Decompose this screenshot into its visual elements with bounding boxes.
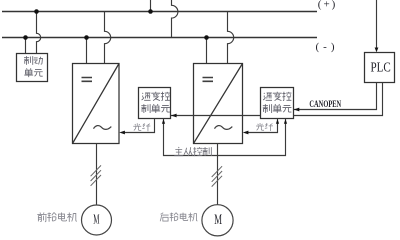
svg-text:(-): (-) [316,41,339,53]
svg-text:PLC: PLC [371,60,391,75]
svg-text:CANOPEN: CANOPEN [309,99,341,109]
svg-text:(+): (+) [318,0,338,11]
svg-text:M: M [93,212,99,227]
svg-text:M: M [214,212,222,228]
